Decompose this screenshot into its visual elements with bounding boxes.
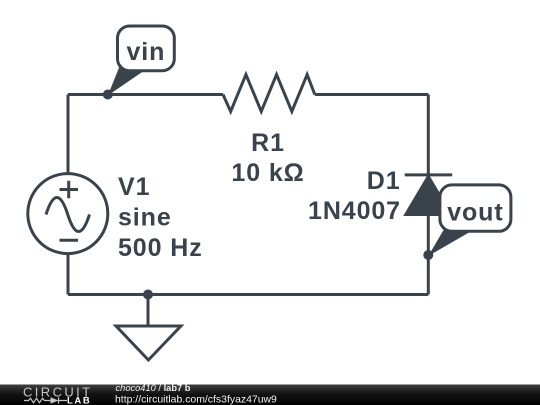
wire below source xyxy=(67,254,70,295)
svg-text:LAB: LAB xyxy=(67,396,91,405)
svg-text:1N4007: 1N4007 xyxy=(308,197,401,225)
node vout junction xyxy=(423,250,433,260)
wire left vertical xyxy=(67,95,70,174)
flag vin xyxy=(118,26,175,71)
svg-text:D1: D1 xyxy=(367,167,401,195)
wire top-right horizontal xyxy=(315,93,429,96)
logo diode triangle xyxy=(51,397,59,403)
flag vout xyxy=(440,185,511,231)
wire bottom horizontal xyxy=(68,293,428,296)
svg-text:choco410 / lab7 b: choco410 / lab7 b xyxy=(116,383,191,393)
svg-text:vin: vin xyxy=(126,38,165,66)
svg-text:V1: V1 xyxy=(118,173,150,201)
wire top-left horizontal xyxy=(68,93,223,96)
ground xyxy=(116,295,181,361)
flag tail vin xyxy=(108,64,143,96)
node ground junction xyxy=(143,290,153,300)
svg-text:500 Hz: 500 Hz xyxy=(118,234,203,262)
svg-text:vout: vout xyxy=(447,199,503,227)
flag tail vout xyxy=(428,228,469,257)
footer bar xyxy=(0,385,540,405)
voltage source V1 xyxy=(28,174,108,254)
svg-text:R1: R1 xyxy=(251,129,285,157)
wire right vertical xyxy=(427,95,430,295)
svg-text:http://circuitlab.com/cfs3fyaz: http://circuitlab.com/cfs3fyaz47uw9 xyxy=(115,395,277,405)
node vin junction xyxy=(103,90,113,100)
logo resistor-diode glyph xyxy=(24,397,67,403)
svg-text:sine: sine xyxy=(118,204,172,232)
resistor R1 xyxy=(223,75,315,112)
diode D1 xyxy=(405,175,453,215)
svg-text:10 kΩ: 10 kΩ xyxy=(231,159,304,187)
